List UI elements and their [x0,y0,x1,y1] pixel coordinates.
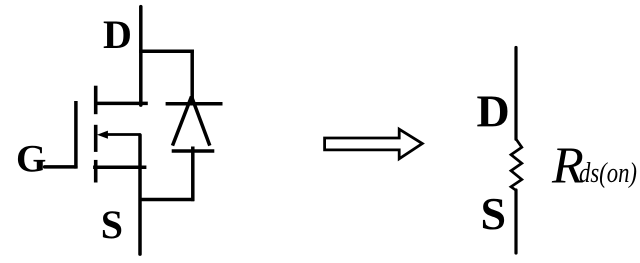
block arrow (implies equivalence) [325,129,423,159]
svg-text:G: G [16,138,46,181]
diode D1 triangle right leg [192,97,210,146]
transistor Q1 body arrowhead [97,131,108,139]
wire: bottom interconnect to diode branch [139,198,195,202]
transistor Q1 body stub wire [104,133,141,136]
svg-text:S: S [481,188,507,239]
svg-text:D: D [477,85,510,136]
wire: top interconnect to diode branch [139,49,194,53]
wire: diode branch upper segment [190,50,194,104]
transistor Q1 source stub [93,165,146,169]
wire: source lead (right figure) [514,190,517,253]
transistor Q1 drain stub [94,102,147,106]
diode D1 cathode bar [166,102,223,106]
wire: source lead (vertical, bottom) [138,135,142,254]
svg-text:ds(on): ds(on) [579,157,637,189]
svg-text:S: S [101,202,123,247]
wire: drain lead (right figure) [514,48,517,140]
wire: gate lead [45,165,76,169]
diode D1 anode bar [172,149,215,153]
transistor Q1 channel segment middle [94,125,98,152]
wire: diode branch lower segment [191,147,195,202]
transistor Q1 channel segment top [94,86,98,115]
diode D1 triangle left leg [173,97,192,146]
transistor Q1 gate bar [74,101,78,169]
resistor Rds(on) zigzag [511,139,522,190]
transistor Q1 channel segment bottom [94,160,98,183]
wire: drain lead (vertical, top) [139,7,143,106]
svg-text:D: D [103,12,132,57]
